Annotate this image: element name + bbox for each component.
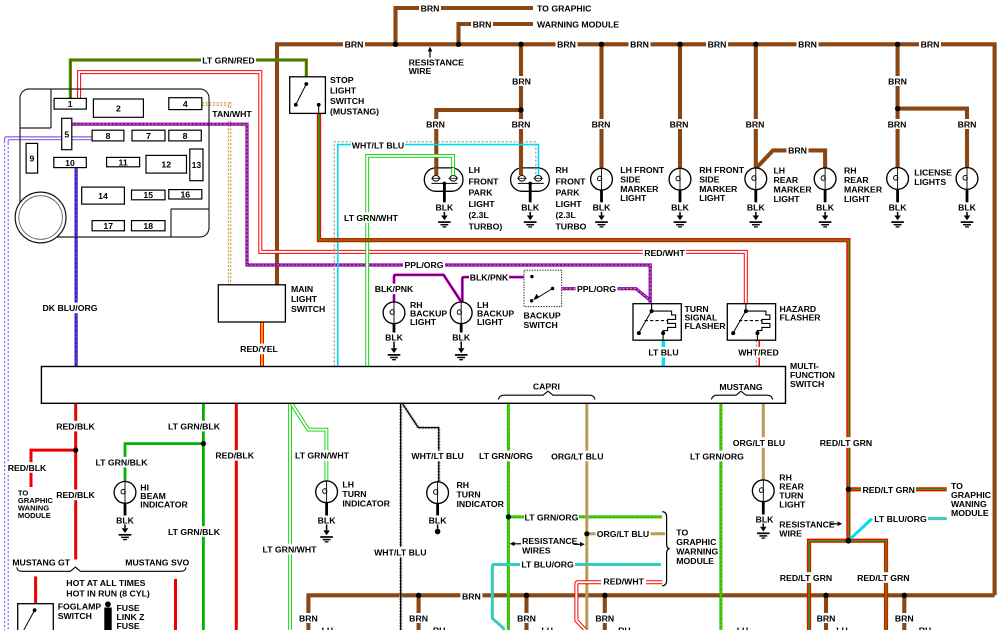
svg-text:RED/YEL: RED/YEL xyxy=(240,344,278,354)
svg-text:BRN: BRN xyxy=(426,119,445,129)
svg-text:WIRES: WIRES xyxy=(522,545,551,555)
fuse 12 xyxy=(146,155,187,173)
svg-text:BLK: BLK xyxy=(116,515,135,525)
wire RED/LT GRN branch to graphic module xyxy=(850,487,947,491)
LH backup light xyxy=(450,302,472,360)
svg-text:1: 1 xyxy=(68,99,73,109)
fuse 8b xyxy=(169,130,202,141)
fuse numbers xyxy=(29,99,201,231)
svg-text:LT GRN/ORG: LT GRN/ORG xyxy=(525,512,579,522)
wire TAN/WHT fuse4 to main light switch xyxy=(202,104,230,285)
svg-text:WIRE: WIRE xyxy=(409,66,432,76)
svg-text:BRN: BRN xyxy=(409,613,428,623)
svg-text:RH: RH xyxy=(556,165,569,175)
svg-text:BRN: BRN xyxy=(345,40,364,50)
svg-text:LIGHTS: LIGHTS xyxy=(914,177,946,187)
svg-text:TURBO: TURBO xyxy=(556,222,587,232)
svg-text:RED/BLK: RED/BLK xyxy=(8,463,47,473)
svg-text:ORG/LT BLU: ORG/LT BLU xyxy=(597,529,649,539)
svg-text:2: 2 xyxy=(116,104,121,114)
svg-text:PPL/ORG: PPL/ORG xyxy=(404,260,443,270)
svg-text:LH: LH xyxy=(836,626,848,630)
junction at 521,44.3 xyxy=(518,42,523,47)
fuse 2 xyxy=(93,99,143,117)
svg-text:LT GRN/WHT: LT GRN/WHT xyxy=(263,544,318,554)
junction at 848.4,489.3 xyxy=(846,487,851,492)
svg-text:FUSE: FUSE xyxy=(117,621,140,630)
svg-text:LT GRN/WHT: LT GRN/WHT xyxy=(344,213,399,223)
wire ORG/LT BLU first vertical xyxy=(585,403,588,630)
arrows resistance wires center xyxy=(510,542,585,547)
svg-text:TURN: TURN xyxy=(457,490,481,500)
junction at 508.4,516.9 xyxy=(506,514,511,519)
LH front park light xyxy=(424,168,463,227)
svg-text:INDICATOR: INDICATOR xyxy=(457,499,505,509)
svg-text:LIGHT: LIGHT xyxy=(844,194,871,204)
svg-text:BRN: BRN xyxy=(670,119,689,129)
wire WHT/LT BLU multifunction to RH park light (blue part) xyxy=(338,145,539,367)
wire LT GRN/WHT LH park light to multifunction switch xyxy=(367,156,453,367)
svg-text:LIGHT: LIGHT xyxy=(477,317,504,327)
svg-text:MARKER: MARKER xyxy=(774,184,813,194)
wire RED/BLK branch to graphic module left xyxy=(31,450,76,487)
fuse 15 xyxy=(132,190,166,200)
svg-text:RH: RH xyxy=(433,626,446,630)
junction at 826,595.3 xyxy=(823,593,828,598)
RH rear marker light xyxy=(814,168,836,227)
wire LT GRN/ORG horizontal to brace xyxy=(508,515,662,518)
svg-text:RH: RH xyxy=(618,626,631,630)
svg-text:BLK: BLK xyxy=(756,514,775,524)
fuse 9 xyxy=(26,143,37,173)
junction at 904.3,595.3 xyxy=(902,593,907,598)
fuse 11 xyxy=(107,157,140,166)
wire LT GRN/RED fuse1 to stop light switch xyxy=(70,60,306,98)
svg-text:LH: LH xyxy=(541,626,553,630)
fuse link Z symbol xyxy=(104,601,111,630)
svg-text:TURBO): TURBO) xyxy=(469,222,503,232)
wire RED/WHT bottom xyxy=(576,582,662,630)
wire RED/BLK multifunction down left xyxy=(74,403,77,559)
svg-text:LIGHT: LIGHT xyxy=(330,86,357,96)
RH front park light xyxy=(511,168,550,227)
fuse panel outline xyxy=(20,89,209,237)
svg-text:SWITCH: SWITCH xyxy=(330,96,364,106)
svg-text:LIGHT: LIGHT xyxy=(469,199,496,209)
fuse 7 xyxy=(132,130,165,141)
svg-text:LT GRN/BLK: LT GRN/BLK xyxy=(168,527,221,537)
fuse 18 xyxy=(132,221,166,231)
wire PPL/ORG backup switch branch xyxy=(562,289,651,301)
svg-text:LIGHT: LIGHT xyxy=(699,193,726,203)
svg-text:11: 11 xyxy=(119,157,128,167)
wire RED fuse1 to hazard flasher xyxy=(79,72,746,304)
wire BRN drop to RH front side marker xyxy=(678,44,682,169)
svg-text:SWITCH: SWITCH xyxy=(58,611,92,621)
main light switch box xyxy=(218,285,285,322)
wire BRN drop to RH front park light xyxy=(519,44,523,176)
svg-text:BRN: BRN xyxy=(421,3,440,13)
svg-text:RED/LT GRN: RED/LT GRN xyxy=(780,573,832,583)
svg-text:MODULE: MODULE xyxy=(676,556,714,566)
svg-text:WHT/LT BLU: WHT/LT BLU xyxy=(411,451,463,461)
wire LT BLU turn signal flasher to multifunction xyxy=(662,340,665,366)
svg-text:BLK: BLK xyxy=(889,203,908,213)
fuse 17 xyxy=(92,221,124,231)
foglamp switch box xyxy=(18,604,54,630)
svg-text:LT GRN/RED: LT GRN/RED xyxy=(202,56,254,66)
svg-text:SWITCH: SWITCH xyxy=(790,379,824,389)
LH turn indicator xyxy=(316,481,338,542)
svg-text:RED/WHT: RED/WHT xyxy=(644,248,685,258)
junction at 521,110 xyxy=(518,107,523,112)
svg-text:BRN: BRN xyxy=(512,119,531,129)
fuse 5 xyxy=(62,118,72,149)
svg-text:LIGHT: LIGHT xyxy=(779,500,806,510)
svg-text:WARNING MODULE: WARNING MODULE xyxy=(537,19,619,29)
hazard flasher box xyxy=(727,304,775,341)
fuse 10 xyxy=(54,157,87,167)
wire BRN drop to LH rear marker xyxy=(754,44,758,168)
svg-text:FLASHER: FLASHER xyxy=(685,321,727,331)
junction at 418.6,595.3 xyxy=(416,593,421,598)
svg-text:14: 14 xyxy=(98,191,108,201)
multi-function switch box xyxy=(41,367,785,404)
svg-text:LT GRN/WHT: LT GRN/WHT xyxy=(295,451,350,461)
junction at 395.5,44.3 xyxy=(393,42,398,47)
wire BRN to graphic warning module upper xyxy=(396,8,534,44)
RH rear turn light xyxy=(752,480,774,538)
wire LT GRN/WHT below multifunction straight xyxy=(288,403,292,630)
svg-text:DK BLU/ORG: DK BLU/ORG xyxy=(42,303,97,313)
turn signal flasher box xyxy=(633,304,681,341)
svg-text:CAPRI: CAPRI xyxy=(533,382,560,392)
svg-text:STOP: STOP xyxy=(330,75,354,85)
svg-text:WHT/RED: WHT/RED xyxy=(738,348,779,358)
svg-text:LIGHT: LIGHT xyxy=(620,193,647,203)
wire name labels group xyxy=(8,55,929,587)
svg-text:LIGHT: LIGHT xyxy=(774,194,801,204)
BRN label bus 1 xyxy=(297,3,978,623)
svg-text:BRN: BRN xyxy=(888,76,907,86)
svg-text:MAIN: MAIN xyxy=(291,284,313,294)
svg-text:8: 8 xyxy=(183,131,188,141)
svg-text:BRN: BRN xyxy=(557,40,576,50)
wire BRN bottom drop 4 xyxy=(824,595,828,630)
svg-text:(2.3L: (2.3L xyxy=(469,210,490,220)
wire BRN bottom drop 2 xyxy=(524,595,528,630)
svg-text:BRN: BRN xyxy=(888,119,907,129)
svg-text:RH: RH xyxy=(457,480,470,490)
wire WHT/RED hazard flasher to multifunction xyxy=(755,340,757,366)
svg-text:9: 9 xyxy=(29,154,34,164)
wire PPL dashed far-left xyxy=(5,137,93,141)
svg-text:RED/LT GRN: RED/LT GRN xyxy=(857,573,909,583)
stop light switch box xyxy=(290,77,326,114)
svg-text:RED/LT GRN: RED/LT GRN xyxy=(862,485,914,495)
svg-text:RH: RH xyxy=(919,626,932,630)
svg-text:BRN: BRN xyxy=(630,40,649,50)
wire LT BLU/ORG right diagonal xyxy=(848,519,872,541)
wire RED foglamp switch xyxy=(34,576,37,604)
svg-text:BRN: BRN xyxy=(473,19,492,29)
fuse 8a xyxy=(92,130,124,141)
svg-text:TAN/WHT: TAN/WHT xyxy=(212,109,252,119)
wire BRN branch to LH front park light xyxy=(436,110,521,176)
svg-text:RH: RH xyxy=(844,166,857,176)
svg-text:8: 8 xyxy=(106,131,111,141)
svg-text:WIRE: WIRE xyxy=(779,529,802,539)
license light 2 xyxy=(956,168,978,227)
svg-text:LH: LH xyxy=(342,480,354,490)
svg-text:BRN: BRN xyxy=(788,146,807,156)
hi beam indicator xyxy=(114,482,136,540)
svg-text:HOT IN RUN (8 CYL): HOT IN RUN (8 CYL) xyxy=(66,588,150,598)
svg-text:BLK: BLK xyxy=(452,332,471,342)
RH backup light xyxy=(383,302,405,360)
wire LT GRN/BLK branch to hi beam indicator xyxy=(125,444,203,482)
brace mustang gt svo xyxy=(17,567,186,571)
fuse 1 xyxy=(54,98,86,109)
wire BLK/PNK backup lights jumper xyxy=(394,275,461,303)
wire BRN jumper LH rear to RH rear marker xyxy=(756,150,825,168)
svg-text:RED/LT GRN: RED/LT GRN xyxy=(820,438,872,448)
svg-text:BRN: BRN xyxy=(817,613,836,623)
wire WHT/LT BLU branch to RH turn indicator xyxy=(402,403,439,482)
wire BRN bottom drop 5 xyxy=(902,595,906,630)
wire stubs into park light terminals xyxy=(436,168,538,176)
wire ORG/LT BLU to RH rear turn light xyxy=(762,403,765,479)
svg-text:16: 16 xyxy=(180,190,190,200)
svg-text:LT GRN/BLK: LT GRN/BLK xyxy=(96,458,149,468)
svg-text:17: 17 xyxy=(103,221,113,231)
wire ORG/LT BLU horizontal to brace xyxy=(587,532,665,535)
wire RED mustang svo xyxy=(174,579,177,630)
svg-text:18: 18 xyxy=(143,221,153,231)
backup switch box xyxy=(524,270,562,306)
svg-text:BLK: BLK xyxy=(435,203,454,213)
wire RED/LT GRN bottom loop xyxy=(809,541,886,630)
svg-text:12: 12 xyxy=(161,160,171,170)
wire LT BLU/ORG right to module xyxy=(927,517,947,520)
svg-text:BLK: BLK xyxy=(318,515,337,525)
wire BRN bottom drop 3 xyxy=(603,595,607,630)
svg-text:WHT/LT BLU: WHT/LT BLU xyxy=(374,547,426,557)
svg-text:LT BLU/ORG: LT BLU/ORG xyxy=(521,560,574,570)
license light 1 xyxy=(887,168,909,227)
svg-text:FLASHER: FLASHER xyxy=(780,313,822,323)
wire RED/YEL main light switch to multifunction xyxy=(260,322,264,367)
svg-text:BLK: BLK xyxy=(429,515,448,525)
BLK labels xyxy=(114,203,978,526)
fuse 4 xyxy=(169,98,202,110)
wire BRN to graphic warning module lower xyxy=(459,24,534,44)
svg-text:BLK: BLK xyxy=(958,203,977,213)
svg-text:BRN: BRN xyxy=(595,613,614,623)
junction at 586.8,533.8 xyxy=(584,531,589,536)
wire LT GRN/BLK multifunction down xyxy=(202,403,205,630)
junction at 203.4,443.6 xyxy=(201,441,206,446)
svg-text:LH: LH xyxy=(774,166,786,176)
wire LT GRN/ORG first vertical xyxy=(507,403,510,630)
wire LT GRN/ORG second vertical xyxy=(719,403,722,630)
svg-text:(MUSTANG): (MUSTANG) xyxy=(330,107,379,117)
svg-text:BLK: BLK xyxy=(593,203,612,213)
wire DK BLU/ORG fuse10 to multifunction switch xyxy=(74,168,77,367)
wire RED/BLK second xyxy=(235,403,238,630)
junction at 680,44.3 xyxy=(677,42,682,47)
junction at 897.6,108.6 xyxy=(895,106,900,111)
svg-text:FRONT: FRONT xyxy=(556,176,587,186)
wire LT GRN/WHT branch to LH turn indicator xyxy=(291,403,326,481)
svg-text:TURN: TURN xyxy=(342,489,366,499)
wire RED/LT GRN stop light switch to right side xyxy=(319,113,848,540)
fuse 13 xyxy=(190,149,203,181)
junction at 604.8,595.3 xyxy=(602,593,607,598)
svg-text:BRN: BRN xyxy=(299,613,318,623)
svg-text:INDICATOR: INDICATOR xyxy=(140,500,188,510)
svg-text:BLK: BLK xyxy=(385,332,404,342)
brace to graphic warning module center xyxy=(662,512,670,586)
svg-text:BACKUP: BACKUP xyxy=(524,311,561,321)
junction at 75.7,450.1 xyxy=(73,448,78,453)
svg-text:BRN: BRN xyxy=(462,592,481,602)
svg-text:PARK: PARK xyxy=(556,188,581,198)
svg-text:INDICATOR: INDICATOR xyxy=(342,499,390,509)
LH rear marker light xyxy=(745,168,767,227)
LH front side marker light xyxy=(591,168,613,227)
wire BRN bottom bus xyxy=(308,595,994,630)
svg-text:MARKER: MARKER xyxy=(844,184,883,194)
fuse panel speaker circle xyxy=(15,192,66,243)
svg-text:SWITCH: SWITCH xyxy=(524,320,558,330)
svg-text:LT BLU/ORG: LT BLU/ORG xyxy=(874,514,927,524)
RH front side marker light xyxy=(669,168,691,227)
wire LT BLU/ORG bottom horizontal xyxy=(575,563,661,566)
svg-text:PPL/ORG: PPL/ORG xyxy=(577,284,616,294)
svg-text:LIGHT: LIGHT xyxy=(410,317,437,327)
svg-text:BRN: BRN xyxy=(512,76,531,86)
junction at 526.5,595.3 xyxy=(524,593,529,598)
wire BRN branch to license light 2 xyxy=(898,109,967,169)
svg-text:MUSTANG GT: MUSTANG GT xyxy=(12,557,70,567)
brace mustang xyxy=(712,391,773,399)
svg-text:BLK: BLK xyxy=(747,203,766,213)
svg-text:BLK/PNK: BLK/PNK xyxy=(375,284,414,294)
svg-text:LT BLU: LT BLU xyxy=(648,348,678,358)
fuse 14 xyxy=(82,187,125,204)
svg-text:BLK: BLK xyxy=(816,203,835,213)
svg-text:7: 7 xyxy=(146,131,151,141)
svg-text:13: 13 xyxy=(192,160,202,170)
svg-text:ORG/LT BLU: ORG/LT BLU xyxy=(551,451,603,461)
svg-text:LH: LH xyxy=(322,626,334,630)
svg-text:LICENSE: LICENSE xyxy=(914,167,952,177)
svg-text:LH: LH xyxy=(737,626,749,630)
svg-text:LT GRN/ORG: LT GRN/ORG xyxy=(479,451,533,461)
wire BRN drop to license light 1 xyxy=(896,44,900,168)
svg-text:5: 5 xyxy=(64,130,69,140)
svg-text:BRN: BRN xyxy=(517,613,536,623)
svg-text:LT GRN/BLK: LT GRN/BLK xyxy=(168,421,221,431)
svg-text:(2.3L: (2.3L xyxy=(556,210,577,220)
junction at 848.4,540.7 xyxy=(846,538,852,544)
svg-text:LH: LH xyxy=(469,165,481,175)
svg-text:ORG/LT BLU: ORG/LT BLU xyxy=(733,438,785,448)
svg-text:LIGHT: LIGHT xyxy=(556,199,583,209)
svg-text:BRN: BRN xyxy=(746,119,765,129)
svg-text:PARK: PARK xyxy=(469,188,494,198)
junction at 458.5,44.3 xyxy=(456,42,461,47)
svg-text:SWITCH: SWITCH xyxy=(291,304,325,314)
wire BRN top bus + right edge xyxy=(277,44,995,595)
wire WHT/LT BLU multifunction to RH park light (white part) xyxy=(334,142,536,367)
arrow resistance wire right xyxy=(830,522,843,527)
svg-text:RED/BLK: RED/BLK xyxy=(56,490,95,500)
svg-text:BLK: BLK xyxy=(521,203,540,213)
svg-text:BRN: BRN xyxy=(958,119,977,129)
svg-text:BLK: BLK xyxy=(671,203,690,213)
wire BLK/PNK backup switch to LH backup light xyxy=(462,277,524,302)
fuse 16 xyxy=(169,190,202,199)
svg-text:BRN: BRN xyxy=(895,613,914,623)
svg-text:RED/BLK: RED/BLK xyxy=(215,451,254,461)
svg-text:BRN: BRN xyxy=(798,40,817,50)
svg-text:LT GRN/ORG: LT GRN/ORG xyxy=(690,451,744,461)
svg-text:HOT AT ALL TIMES: HOT AT ALL TIMES xyxy=(66,578,145,588)
svg-text:RED/WHT: RED/WHT xyxy=(603,577,644,587)
svg-text:FRONT: FRONT xyxy=(469,176,500,186)
svg-text:WHT/LT BLU: WHT/LT BLU xyxy=(352,141,404,151)
wire LT BLU/ORG bottom left xyxy=(492,565,521,630)
svg-text:TO GRAPHIC: TO GRAPHIC xyxy=(537,3,592,13)
svg-text:10: 10 xyxy=(65,158,75,168)
wire BRN drop to LH front side marker xyxy=(599,44,603,169)
svg-text:15: 15 xyxy=(143,190,153,200)
svg-text:RED/BLK: RED/BLK xyxy=(56,421,95,431)
junction at 755.8,44.3 xyxy=(753,42,758,47)
svg-text:BRN: BRN xyxy=(708,40,727,50)
svg-text:BRN: BRN xyxy=(921,40,940,50)
wire BRN bottom drop 1 xyxy=(417,595,421,630)
junction at 601.5,44.3 xyxy=(599,42,604,47)
arrow resistance wire top xyxy=(428,47,433,58)
svg-text:MODULE: MODULE xyxy=(951,508,989,518)
wire WHT/LT BLU below multifunction straight xyxy=(399,403,402,630)
svg-text:LIGHT: LIGHT xyxy=(291,294,318,304)
junction at 897.6,44.3 xyxy=(895,42,900,47)
svg-text:MODULE: MODULE xyxy=(18,511,51,520)
RH turn indicator xyxy=(427,482,449,534)
svg-text:FOGLAMP: FOGLAMP xyxy=(58,602,102,612)
brace capri xyxy=(499,391,596,399)
svg-text:MUSTANG SVO: MUSTANG SVO xyxy=(125,557,189,567)
wire PPL/ORG fuse5 to turn signal flasher xyxy=(72,124,650,304)
svg-text:BLK/PNK: BLK/PNK xyxy=(470,273,509,283)
svg-text:BRN: BRN xyxy=(592,119,611,129)
svg-text:4: 4 xyxy=(183,99,188,109)
